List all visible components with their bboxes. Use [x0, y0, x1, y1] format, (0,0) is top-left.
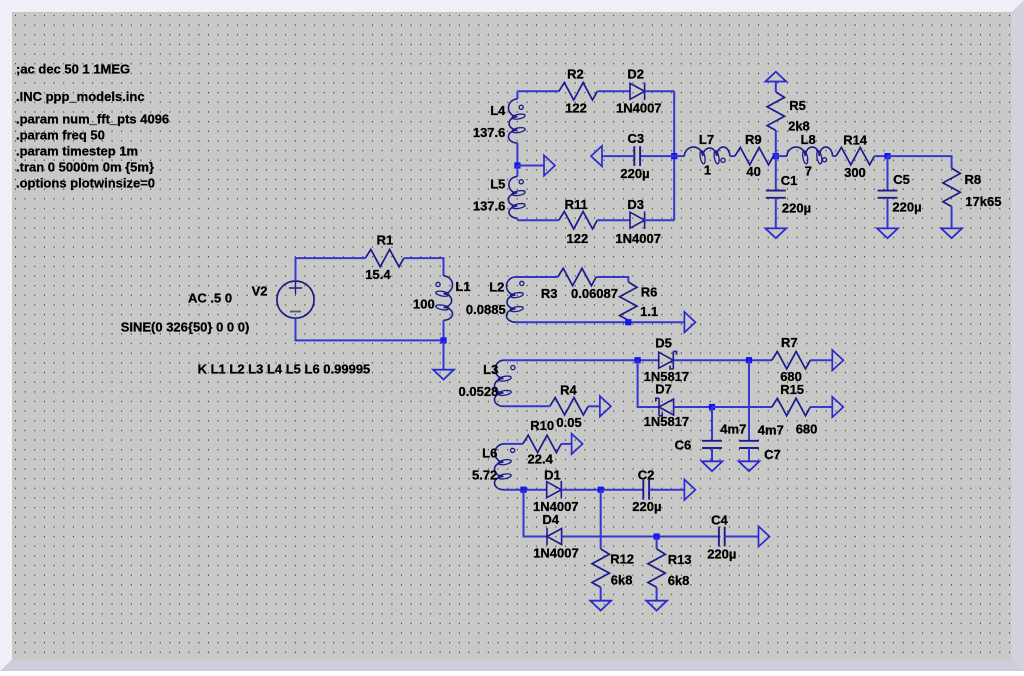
- svg-text:R11: R11: [565, 197, 588, 212]
- inductor L6: [494, 444, 514, 490]
- svg-text:D3: D3: [627, 197, 644, 212]
- wire L3 bottom rail: [504, 405, 550, 407]
- wire C2 to port: [649, 489, 684, 491]
- wire to R12: [600, 490, 602, 549]
- svg-text:17k65: 17k65: [965, 194, 1001, 209]
- svg-text:.param timestep 1m: .param timestep 1m: [16, 143, 138, 158]
- junction D1 anode node: [520, 487, 526, 493]
- wire node to L7: [674, 155, 684, 157]
- wire R9 to node: [773, 155, 776, 157]
- svg-text:D7: D7: [655, 382, 672, 397]
- capacitor C7: [739, 441, 759, 448]
- junction C6 node: [709, 404, 715, 410]
- svg-text:R14: R14: [843, 132, 868, 147]
- port arrow L2 row: [684, 312, 695, 332]
- resistor R3: [558, 268, 596, 285]
- wire to R13: [656, 537, 658, 549]
- svg-text:22.4: 22.4: [528, 452, 554, 467]
- svg-text:C5: C5: [893, 172, 910, 187]
- svg-text:220µ: 220µ: [620, 166, 649, 181]
- svg-text:0.0885: 0.0885: [466, 302, 506, 317]
- capacitor C1: [766, 191, 786, 198]
- svg-text:137.6: 137.6: [473, 199, 506, 214]
- svg-text:.param freq 50: .param freq 50: [16, 127, 105, 142]
- resistor R15: [772, 398, 810, 415]
- svg-text:R12: R12: [610, 551, 634, 566]
- diode D1: [547, 481, 562, 499]
- junction node V2 bottom: [440, 337, 446, 343]
- svg-text:220µ: 220µ: [782, 201, 811, 216]
- voltage source V2 body: [277, 281, 314, 318]
- V2 plus sign: [289, 282, 302, 295]
- wire R2 to D2: [597, 90, 630, 92]
- wire bottom rail left: [517, 219, 559, 221]
- wire right vertical rail: [673, 91, 675, 220]
- svg-text:K L1 L2 L3 L4 L5 L6 0.99995: K L1 L2 L3 L4 L5 L6 0.99995: [198, 362, 371, 377]
- svg-text:5.72: 5.72: [472, 468, 497, 483]
- svg-text:SINE(0 326{50} 0 0 0): SINE(0 326{50} 0 0 0): [121, 320, 250, 335]
- svg-text:122: 122: [565, 101, 587, 116]
- svg-text:220µ: 220µ: [892, 200, 921, 215]
- wire C6 node to R15: [712, 406, 772, 408]
- resistor R6: [620, 282, 637, 320]
- wire L7 to R9: [730, 155, 735, 157]
- svg-text:D4: D4: [542, 512, 559, 527]
- wire node to C5: [887, 156, 889, 191]
- inductor L2: [506, 277, 523, 322]
- svg-text:137.6: 137.6: [473, 125, 506, 140]
- svg-text:R15: R15: [780, 382, 804, 397]
- svg-text:D2: D2: [627, 66, 644, 81]
- diode D7 (schottky): [656, 398, 674, 416]
- inductor L8: [787, 147, 833, 164]
- wire centre tap to port: [517, 165, 544, 167]
- wire L5 bottom stub: [516, 218, 518, 220]
- wire C1 to ground: [775, 198, 777, 229]
- wire L2 bottom rail: [516, 321, 685, 323]
- svg-text:1.1: 1.1: [640, 304, 658, 319]
- diode D4: [547, 528, 562, 546]
- ground below L1: [433, 370, 454, 380]
- wire L6 bottom rail to D1: [504, 489, 547, 491]
- wire L1 bottom: [443, 320, 445, 340]
- wire to ground: [443, 340, 445, 369]
- wire D5 to R7: [673, 359, 772, 361]
- svg-text:C3: C3: [628, 131, 645, 146]
- wire V2 bottom rail: [296, 318, 444, 340]
- svg-text:R4: R4: [560, 383, 577, 398]
- port arrow at centre tap: [544, 155, 555, 175]
- wire C7 from D5 output node: [748, 360, 750, 441]
- wire D2 to right rail: [645, 90, 675, 92]
- ground below C6: [702, 461, 723, 471]
- wire top rail left: [517, 90, 559, 92]
- svg-text:0.05: 0.05: [556, 415, 581, 430]
- wire D1 to C2: [561, 489, 643, 491]
- svg-text:C1: C1: [781, 173, 798, 188]
- wire C4 to port: [725, 536, 759, 538]
- svg-text:;ac dec 50 1 1MEG: ;ac dec 50 1 1MEG: [16, 62, 130, 77]
- svg-text:R13: R13: [668, 552, 692, 567]
- window frame dark bevel right side: [1012, 0, 1024, 671]
- wire C6 node down: [711, 407, 713, 441]
- wire R13 to ground: [656, 587, 658, 600]
- resistor R13: [648, 549, 665, 587]
- svg-text:4m7: 4m7: [758, 423, 784, 438]
- svg-text:6k8: 6k8: [668, 573, 690, 588]
- wire R14 to node: [874, 155, 887, 157]
- svg-text:220µ: 220µ: [707, 547, 736, 562]
- ground below R12: [590, 601, 611, 611]
- wire V2 top to R1: [296, 258, 366, 281]
- svg-text:220µ: 220µ: [632, 499, 661, 514]
- port arrow left of C3: [591, 146, 602, 166]
- svg-text:1: 1: [704, 163, 711, 178]
- wire C5 to ground: [887, 198, 889, 229]
- svg-text:1N5817: 1N5817: [644, 414, 690, 429]
- svg-text:L8: L8: [801, 132, 816, 147]
- svg-text:L4: L4: [490, 103, 506, 118]
- resistor R1: [365, 249, 403, 266]
- svg-text:100: 100: [413, 297, 435, 312]
- svg-text:L2: L2: [489, 280, 504, 295]
- wire R6 bottom stub: [627, 320, 629, 322]
- resistor R11: [559, 212, 597, 229]
- svg-text:680: 680: [796, 421, 818, 436]
- wire L6 top rail: [504, 443, 523, 445]
- junction R13 node: [654, 533, 660, 539]
- wire D4 to C4: [562, 536, 719, 538]
- junction filter node 1: [773, 153, 779, 159]
- svg-text:R2: R2: [567, 66, 584, 81]
- wire L5 top stub: [516, 166, 518, 177]
- wire L4 top stub: [516, 91, 518, 99]
- svg-text:6k8: 6k8: [611, 573, 633, 588]
- resistor R7: [772, 352, 810, 369]
- ground below C1: [765, 228, 786, 238]
- wire node to R5: [775, 130, 777, 156]
- resistor R10: [523, 435, 561, 452]
- svg-text:AC .5 0: AC .5 0: [188, 291, 232, 306]
- capacitor C3: [634, 146, 640, 166]
- wire C6 to ground: [711, 448, 713, 461]
- wire R11 to D3: [597, 219, 630, 221]
- wire C3 to port: [602, 155, 635, 157]
- wire down to D4: [524, 490, 548, 537]
- inductor L3: [494, 360, 515, 406]
- wire R12 to ground: [600, 587, 602, 600]
- wire C7 to ground: [748, 448, 750, 461]
- wire node to C3: [640, 155, 674, 157]
- svg-text:0.06087: 0.06087: [571, 286, 618, 301]
- svg-text:300: 300: [844, 165, 866, 180]
- wire R1 to L1: [404, 258, 444, 276]
- wire R5 to flipped ground: [775, 82, 777, 93]
- svg-text:40: 40: [746, 164, 760, 179]
- svg-text:7: 7: [805, 163, 812, 178]
- svg-text:R10: R10: [530, 418, 554, 433]
- ground (flipped) above R5: [765, 72, 786, 82]
- port arrow C2 row: [684, 480, 695, 500]
- resistor R12: [592, 549, 609, 587]
- window frame dark bevel bottom side: [0, 660, 1024, 671]
- svg-text:L3: L3: [483, 362, 498, 377]
- wire L3 top rail to D5: [504, 359, 659, 361]
- wire L4 bottom stub: [516, 143, 518, 166]
- svg-text:D5: D5: [655, 336, 672, 351]
- V2 minus sign: [290, 311, 301, 313]
- svg-text:1N4007: 1N4007: [615, 231, 661, 246]
- wire D7 to C6 node: [674, 406, 712, 408]
- svg-text:R7: R7: [781, 335, 798, 350]
- port arrow R4 row: [600, 396, 611, 416]
- junction D5 output node: [746, 357, 752, 363]
- wire D5 node down to D7: [638, 360, 659, 407]
- svg-text:.INC ppp_models.inc: .INC ppp_models.inc: [16, 89, 145, 104]
- junction rectifier output node: [671, 153, 677, 159]
- svg-text:L6: L6: [482, 446, 497, 461]
- wire node to R8: [888, 156, 952, 168]
- svg-text:R8: R8: [965, 172, 982, 187]
- junction R12 node: [598, 487, 604, 493]
- diode D2: [630, 83, 645, 101]
- svg-text:R5: R5: [789, 98, 806, 113]
- svg-text:0.0528: 0.0528: [459, 384, 499, 399]
- port arrow C4 row: [759, 526, 770, 546]
- ground below C7: [739, 461, 760, 471]
- wire L2 top rail: [516, 276, 558, 278]
- svg-text:R6: R6: [641, 284, 658, 299]
- wire R15 to port: [810, 406, 832, 408]
- wire R8 to ground: [951, 207, 953, 229]
- diode D3: [630, 211, 645, 229]
- resistor R5: [767, 92, 784, 130]
- junction L4-L5 centre tap: [514, 162, 520, 168]
- resistor R2: [559, 83, 597, 100]
- capacitor C6: [702, 441, 722, 448]
- wire node to C1: [775, 156, 777, 191]
- svg-text:C7: C7: [764, 447, 781, 462]
- svg-text:L5: L5: [490, 177, 505, 192]
- svg-text:4m7: 4m7: [720, 421, 746, 436]
- capacitor C4: [719, 527, 725, 547]
- wire D3 to right rail: [645, 219, 675, 221]
- inductor L7: [684, 147, 729, 164]
- inductor L4: [508, 99, 525, 143]
- wire R10 to port: [561, 443, 571, 445]
- svg-text:C6: C6: [675, 437, 692, 452]
- resistor R14: [836, 147, 874, 164]
- junction R6 bottom: [625, 319, 631, 325]
- svg-text:.tran 0 5000m 0m {5m}: .tran 0 5000m 0m {5m}: [16, 159, 154, 174]
- svg-text:.param num_fft_pts 4096: .param num_fft_pts 4096: [16, 111, 169, 126]
- svg-text:1N4007: 1N4007: [533, 545, 579, 560]
- resistor R4: [550, 398, 588, 415]
- inductor L5: [508, 176, 525, 218]
- ground below R8: [941, 228, 962, 238]
- ground below C5: [877, 228, 898, 238]
- port arrow R7 row: [832, 350, 843, 370]
- port arrow R15 row: [832, 397, 843, 417]
- wire R4 to port: [588, 405, 600, 407]
- junction filter node 2: [884, 153, 890, 159]
- svg-text:D1: D1: [544, 468, 561, 483]
- svg-text:.options plotwinsize=0: .options plotwinsize=0: [16, 175, 155, 190]
- svg-text:L7: L7: [699, 132, 714, 147]
- port arrow R10 row: [572, 434, 583, 454]
- wire L8 to R14: [833, 155, 837, 157]
- svg-text:1N4007: 1N4007: [616, 101, 662, 116]
- capacitor C2: [643, 480, 649, 500]
- svg-text:V2: V2: [252, 284, 268, 299]
- svg-text:R1: R1: [377, 232, 394, 247]
- svg-text:R9: R9: [745, 132, 762, 147]
- wire node to L8: [776, 155, 787, 157]
- junction D5 anode node: [635, 357, 641, 363]
- svg-text:R3: R3: [541, 286, 558, 301]
- svg-text:C4: C4: [711, 512, 728, 527]
- diode D5 (schottky): [659, 351, 677, 369]
- capacitor C5: [878, 191, 898, 198]
- ground below R13: [646, 601, 667, 611]
- svg-text:122: 122: [567, 231, 589, 246]
- resistor R8: [943, 168, 960, 206]
- svg-text:L1: L1: [455, 279, 470, 294]
- svg-text:15.4: 15.4: [365, 267, 391, 282]
- svg-text:C2: C2: [638, 468, 655, 483]
- inductor L1: [435, 276, 452, 320]
- resistor R9: [735, 147, 773, 164]
- wire R7 to port: [810, 359, 832, 361]
- wire R3 to R6: [596, 277, 628, 282]
